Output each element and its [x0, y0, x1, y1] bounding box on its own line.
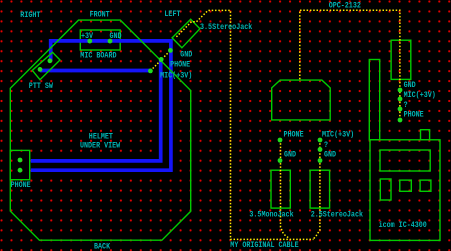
pad radio unknown [398, 107, 403, 112]
radio display [380, 150, 430, 171]
svg-text:LEFT: LEFT [164, 10, 180, 19]
pad jack GND [168, 48, 173, 53]
svg-text:PHONE: PHONE [404, 110, 424, 119]
cable OPC-2132 run [300, 10, 400, 120]
svg-text:HELMET: HELMET [89, 133, 113, 142]
pad phone lower [18, 168, 23, 173]
3.5mm mono jack body [271, 170, 290, 208]
cable plug body (trapezoid) [272, 80, 331, 120]
radio body icom IC-4300 [370, 140, 440, 241]
svg-text:GND: GND [324, 151, 336, 160]
svg-text:GND: GND [180, 51, 192, 60]
svg-text:MY ORIGINAL CABLE: MY ORIGINAL CABLE [230, 241, 298, 250]
svg-text:3.5MonoJack: 3.5MonoJack [249, 209, 293, 219]
pad plug PHONE [278, 138, 283, 143]
cable branch to 2.5 stereo jack [314, 140, 320, 239]
wire PTT to +3V rail, GND rail down to phone lower pad [31, 41, 171, 170]
radio button right [420, 180, 431, 191]
svg-text:RIGHT: RIGHT [20, 11, 40, 20]
svg-text:?: ? [404, 101, 408, 110]
pad plug MIC(+3V) [318, 138, 323, 143]
helmet outline (under view) [10, 20, 190, 240]
mic board box [80, 30, 120, 50]
pad radio GND [398, 88, 403, 93]
radio antenna [369, 60, 379, 140]
svg-text:icom IC-4300: icom IC-4300 [379, 220, 427, 230]
radio speaker-mic jack box [391, 40, 411, 79]
cable branch to 3.5 mono jack [281, 140, 290, 239]
svg-text:MIC(+3V): MIC(+3V) [160, 71, 192, 81]
svg-text:BACK: BACK [94, 242, 110, 251]
svg-text:PTT SW: PTT SW [29, 82, 53, 91]
pad plug GND left [278, 158, 283, 163]
pad radio PHONE [398, 118, 403, 123]
svg-text:GND: GND [284, 151, 296, 160]
svg-text:MIC(+3V): MIC(+3V) [322, 130, 354, 140]
pad jack MIC(+3V) [148, 69, 153, 74]
cable: my original cable main run [176, 10, 313, 239]
svg-text:?: ? [324, 141, 328, 150]
svg-text:3.5StereoJack: 3.5StereoJack [200, 22, 252, 32]
svg-text:PHONE: PHONE [11, 181, 31, 190]
svg-text:MIC(+3V): MIC(+3V) [404, 90, 436, 100]
pad PTT upper [48, 58, 53, 63]
2.5mm stereo jack body [310, 170, 330, 208]
cable run through helmet jack pads [150, 50, 170, 71]
svg-text:GND: GND [404, 81, 416, 90]
PTT switch SW1 [32, 52, 60, 79]
radio top knob [421, 130, 430, 140]
wire jack PHONE pad to phone upper pad [31, 59, 161, 160]
phone (speaker) box [10, 150, 30, 179]
svg-text:FRONT: FRONT [90, 11, 110, 20]
pad radio MIC(+3V) [398, 97, 403, 102]
radio button left [380, 179, 391, 200]
pad jack PHONE [159, 57, 164, 62]
radio button middle [400, 180, 412, 191]
svg-text:+3V: +3V [81, 32, 93, 41]
wire PTT to jack MIC(+3V) pad [40, 69, 152, 73]
svg-text:PHONE: PHONE [284, 131, 304, 140]
pad PTT lower [38, 67, 43, 72]
svg-text:UNDER VIEW: UNDER VIEW [80, 142, 120, 151]
svg-text:OPC-2132: OPC-2132 [329, 2, 361, 11]
svg-text:MIC BOARD: MIC BOARD [80, 52, 116, 61]
svg-text:PHONE: PHONE [170, 61, 190, 70]
svg-text:GND: GND [110, 32, 122, 41]
pad phone upper [18, 158, 23, 163]
3.5mm stereo jack J1 (helmet) [172, 19, 200, 48]
svg-text:2.5StereoJack: 2.5StereoJack [311, 209, 363, 219]
pad plug GND right [318, 158, 323, 163]
pad plug unknown [318, 147, 323, 152]
pad mic board GND [108, 39, 113, 44]
pad mic board +3V [87, 39, 92, 44]
